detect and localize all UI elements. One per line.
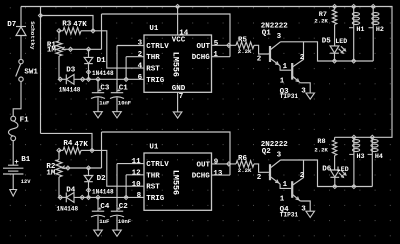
svg-text:H4: H4 [375, 153, 383, 161]
svg-text:LED: LED [335, 38, 347, 45]
svg-text:1uF: 1uF [99, 218, 110, 225]
capacitor C3 [91, 79, 105, 111]
wire OUT row 2 [212, 163, 237, 165]
wire CTRLV pin 3 [117, 46, 144, 93]
pin 14 wire VCC [177, 7, 179, 36]
svg-text:1: 1 [213, 51, 218, 59]
label R4 [63, 140, 73, 148]
resistor R5 [236, 42, 269, 54]
svg-text:12V: 12V [21, 179, 31, 185]
label D2 [97, 175, 107, 183]
svg-text:1: 1 [280, 196, 285, 204]
label H1 [356, 26, 364, 34]
node R3-riser junction [91, 29, 95, 33]
label 2.2K R6 [238, 167, 252, 174]
svg-text:R5: R5 [238, 37, 248, 45]
transistor Q4 [292, 160, 310, 211]
node D5-rail junction [332, 59, 336, 63]
svg-text:LM556: LM556 [170, 52, 180, 77]
inductor H4 [368, 137, 379, 186]
wire DCHG stub 2 [212, 174, 231, 176]
node D2 pin end [86, 188, 90, 192]
node H2-rail junction [371, 4, 375, 8]
svg-text:Schottky: Schottky [29, 21, 36, 50]
label 1N4148 D1 [92, 70, 114, 77]
svg-text:2: 2 [257, 174, 262, 182]
node C4 junction [96, 195, 100, 199]
label D7 [7, 21, 16, 29]
label R1 [47, 42, 57, 50]
svg-text:47K: 47K [73, 21, 87, 29]
svg-text:2: 2 [257, 56, 262, 64]
diode D3 [66, 74, 74, 84]
node H3-rail top junction [352, 135, 356, 139]
label TRIG [146, 77, 165, 85]
svg-text:Q2: Q2 [262, 148, 272, 156]
svg-text:C4: C4 [100, 203, 110, 211]
transistor Q1 [270, 42, 291, 70]
pin 14 [179, 29, 189, 37]
svg-text:TRIG: TRIG [146, 195, 165, 203]
label D4 [66, 186, 76, 194]
node D2-trig junction [86, 195, 90, 199]
label VCC [172, 36, 186, 44]
wire CTRLV pin 11 [117, 164, 144, 212]
svg-text:2.2K: 2.2K [238, 167, 252, 174]
label Q1 [262, 30, 272, 38]
svg-text:DCHG: DCHG [192, 54, 211, 62]
svg-text:OUT: OUT [197, 43, 211, 51]
label DCHG [192, 54, 211, 62]
wire trig row bottom [59, 196, 144, 198]
node D4 pin end [80, 195, 84, 199]
wire SW1 to F1 [13, 81, 21, 116]
wire R3 row to RST [93, 31, 144, 68]
diode D2 [84, 168, 93, 197]
svg-text:3: 3 [277, 33, 282, 41]
node wiper-D2 junction [86, 166, 90, 170]
transistor Q3 [292, 42, 310, 93]
label TIP31 Q3 [280, 93, 299, 100]
pin 7 wire GND [177, 92, 179, 112]
label C2 [117, 203, 128, 213]
svg-text:C3: C3 [100, 84, 110, 92]
pin 3 Q3 [301, 87, 306, 95]
svg-text:2: 2 [138, 51, 143, 59]
svg-text:D7: D7 [7, 21, 16, 29]
svg-text:VCC: VCC [172, 36, 186, 44]
capacitor C1 [110, 93, 124, 112]
pin 3 Q2 [277, 152, 282, 160]
node wiper pin end 2 [66, 166, 70, 170]
resistor R4 [59, 147, 92, 154]
svg-text:10nF: 10nF [118, 100, 131, 107]
transistor Q2 [270, 160, 291, 188]
label 1N4148 D2 [92, 188, 114, 195]
pin 4 [138, 63, 143, 71]
label LED D6 [337, 166, 349, 173]
svg-text:RST: RST [146, 184, 160, 192]
svg-text:R3: R3 [62, 20, 72, 28]
ground C2 [113, 230, 122, 236]
ground U1 [173, 112, 182, 118]
node R7-rail junction [333, 4, 337, 8]
wire R4 row to RST [92, 150, 144, 186]
label R3 [62, 20, 72, 28]
node H4-rail junction [370, 135, 374, 139]
pin 1 [213, 51, 218, 59]
label DCHG 2 [192, 173, 211, 181]
label THR [146, 54, 160, 62]
svg-text:R6: R6 [238, 155, 248, 163]
op-amp U1 box (timer 2) [144, 153, 212, 210]
pin 2 [138, 51, 143, 59]
node D1-trig junction [86, 77, 90, 81]
label THR 2 [146, 172, 160, 180]
pin 1 Q1 [283, 63, 288, 71]
node D1 pin end [86, 70, 90, 74]
svg-text:+: + [14, 159, 19, 167]
inductor H3 [349, 137, 360, 186]
label D1 [97, 57, 107, 65]
wire OUT row [212, 44, 237, 46]
label 47K [73, 21, 87, 29]
label Q3 [280, 88, 290, 96]
label 1N4148 D4 [57, 206, 79, 213]
led D5 [330, 46, 346, 61]
label TIP31 Q4 [280, 211, 299, 218]
node pot2-top junction [57, 148, 61, 152]
resistor R8 [332, 137, 336, 170]
svg-text:1N4148: 1N4148 [92, 70, 114, 77]
resistor R3 [59, 28, 93, 35]
svg-text:3: 3 [301, 206, 306, 214]
svg-text:1M: 1M [46, 169, 56, 177]
label U1 bottom [149, 144, 159, 152]
svg-text:TIP31: TIP31 [280, 211, 299, 218]
pin 12 [132, 169, 142, 177]
svg-text:Q1: Q1 [262, 30, 272, 38]
label R8 [317, 138, 325, 146]
pin 7 [179, 93, 184, 101]
svg-text:3: 3 [138, 40, 143, 48]
label CTRLV [146, 43, 169, 51]
svg-text:D5: D5 [322, 38, 332, 46]
pin 13 [213, 170, 223, 178]
label TRIG 2 [146, 195, 165, 203]
wire bus feed top [41, 16, 94, 31]
svg-text:2: 2 [300, 172, 305, 180]
svg-text:9: 9 [214, 158, 219, 166]
label U1 top [149, 25, 159, 33]
switch SW1 [16, 59, 23, 81]
svg-text:B1: B1 [21, 156, 31, 164]
svg-text:OUT: OUT [197, 162, 211, 170]
label 1uF [99, 100, 110, 107]
pin 3 Q1 [277, 33, 282, 41]
svg-text:H2: H2 [376, 26, 384, 34]
label D5 [322, 38, 332, 46]
led D6 [330, 170, 346, 187]
label 10nF C2 [118, 218, 131, 225]
diode D7 (Schottky) [16, 27, 26, 60]
svg-text:5: 5 [214, 40, 219, 48]
node out junction 2 [227, 162, 231, 166]
svg-text:D1: D1 [97, 57, 107, 65]
wire collector rail bottom [281, 160, 373, 187]
svg-text:3: 3 [301, 87, 306, 95]
label LM556 bottom [170, 170, 180, 195]
node bus feed junction [38, 13, 42, 17]
node wiper-D1 junction [86, 47, 90, 51]
pin 1 Q4 [280, 196, 285, 204]
node out junction [227, 43, 231, 47]
svg-text:2: 2 [300, 54, 305, 62]
wire THR-TRIG tie 2 [126, 175, 144, 198]
svg-text:RST: RST [146, 66, 160, 74]
svg-text:47K: 47K [74, 141, 88, 149]
svg-text:D4: D4 [66, 186, 76, 194]
node wiper pin end [68, 47, 72, 51]
wire feedback top [102, 14, 231, 57]
svg-text:F1: F1 [20, 117, 30, 125]
svg-text:D3: D3 [66, 67, 76, 75]
node H1-rail bottom junction [352, 59, 356, 63]
svg-text:7: 7 [179, 93, 184, 101]
node thr-trig junction 2 [124, 195, 128, 199]
capacitor C2 [110, 211, 124, 230]
label LM556 top [170, 52, 180, 77]
node H3-rail bottom junction [352, 184, 356, 188]
node R4-riser junction [90, 148, 94, 152]
svg-text:11: 11 [132, 158, 142, 166]
pin 1 Q3 [280, 77, 285, 85]
node H1-rail top junction [352, 4, 356, 8]
svg-text:2.2K: 2.2K [238, 48, 252, 55]
svg-text:R8: R8 [317, 138, 325, 146]
label 1N4148 D3 [59, 86, 81, 93]
wire +12V rail (top) [21, 7, 392, 138]
svg-text:THR: THR [146, 172, 160, 180]
svg-text:1: 1 [280, 77, 285, 85]
svg-text:6: 6 [138, 74, 143, 82]
label D3 [66, 67, 76, 75]
label C4 [98, 203, 110, 213]
svg-text:1: 1 [283, 63, 288, 71]
svg-text:13: 13 [213, 170, 223, 178]
svg-text:1N4148: 1N4148 [57, 206, 79, 213]
wire THR-TRIG tie [126, 57, 144, 80]
svg-text:LM556: LM556 [170, 170, 180, 195]
svg-text:CTRLV: CTRLV [146, 161, 169, 169]
fuse F1 [8, 116, 17, 141]
label SW1 [24, 69, 38, 77]
diode D1 [84, 49, 93, 79]
svg-text:LED: LED [337, 166, 349, 173]
svg-text:U1: U1 [149, 144, 159, 152]
label 2N2222 Q2 [261, 141, 289, 149]
label 12V [21, 179, 31, 185]
pin 5 [214, 40, 219, 48]
svg-text:14: 14 [179, 29, 189, 37]
svg-text:H3: H3 [357, 153, 365, 161]
svg-text:H1: H1 [356, 26, 364, 34]
wire bus feed bottom [41, 133, 93, 150]
pin 2 Q1 [257, 56, 262, 64]
label CTRLV 2 [146, 161, 169, 169]
label H3 [357, 153, 365, 161]
svg-text:D6: D6 [322, 166, 332, 174]
svg-text:12: 12 [132, 169, 142, 177]
ground C1 [113, 112, 122, 118]
pin 3 Q4 [301, 206, 306, 214]
svg-text:1: 1 [283, 181, 288, 189]
label 2.2K R5 [238, 48, 252, 55]
label Schottky [29, 21, 36, 50]
label 2N2222 Q1 [261, 22, 289, 30]
pin 2 Q3 [300, 54, 305, 62]
label 2.2K R7 [314, 18, 328, 25]
wire F1 to battery [12, 141, 14, 166]
label GND [172, 85, 186, 93]
svg-text:THR: THR [146, 54, 160, 62]
pin 10 [132, 181, 142, 189]
svg-text:R4: R4 [63, 140, 73, 148]
svg-text:D2: D2 [97, 175, 107, 183]
svg-text:1M: 1M [47, 46, 57, 54]
svg-text:2.2K: 2.2K [314, 18, 328, 25]
svg-text:TIP31: TIP31 [280, 93, 299, 100]
label R6 [238, 155, 248, 163]
label OUT 2 [197, 162, 211, 170]
label 1uF C4 [99, 218, 110, 225]
label 1M R2 [46, 169, 56, 177]
ground Q4 [306, 211, 315, 217]
ground Q3 [306, 93, 315, 99]
pin 9 [214, 158, 219, 166]
label 10nF [118, 100, 131, 107]
wire feedback bottom [102, 132, 231, 175]
svg-text:4: 4 [138, 63, 143, 71]
pin 6 [138, 74, 143, 82]
label C1 [117, 84, 128, 94]
ground C4 [94, 230, 103, 236]
node vcc-rail junction [176, 4, 180, 8]
pin 3 [138, 40, 143, 48]
label RST [146, 66, 160, 74]
wire DCHG stub [212, 56, 231, 58]
potentiometer R2 [56, 150, 102, 197]
capacitor C4 [91, 197, 105, 230]
wire trig row [59, 78, 144, 80]
label Q2 [262, 148, 272, 156]
node D4 cathode pin end [58, 195, 62, 199]
pin 11 [132, 158, 142, 166]
label LED D5 [335, 38, 347, 45]
svg-text:TRIG: TRIG [146, 77, 165, 85]
label 2.2K R8 [314, 146, 328, 153]
svg-text:2.2K: 2.2K [314, 146, 328, 153]
label R2 [46, 163, 56, 171]
node D3 cathode pin end [58, 77, 62, 81]
svg-text:1N4148: 1N4148 [92, 188, 114, 195]
label H4 [375, 153, 383, 161]
label R5 [238, 37, 248, 45]
node D3 pin end [81, 77, 85, 81]
svg-text:8: 8 [137, 192, 142, 200]
svg-text:U1: U1 [149, 25, 159, 33]
pin 1 Q2 [283, 181, 288, 189]
resistor R7 [332, 7, 336, 46]
label F1 [20, 117, 30, 125]
label C3 [98, 84, 110, 94]
svg-text:CTRLV: CTRLV [146, 43, 169, 51]
inductor H1 [349, 7, 360, 62]
wire left bus [40, 7, 42, 134]
label H2 [376, 26, 384, 34]
label R7 [319, 11, 327, 19]
svg-text:DCHG: DCHG [192, 173, 211, 181]
node D6-rail junction [333, 184, 337, 188]
potentiometer R1 [56, 31, 102, 80]
ground battery [10, 190, 17, 197]
svg-text:3: 3 [277, 152, 282, 160]
pin 2 Q2 [257, 174, 262, 182]
wire battery branch to rail [20, 7, 22, 27]
label 1M [47, 46, 57, 54]
svg-text:GND: GND [172, 85, 186, 93]
label 47K R4 [74, 141, 88, 149]
pin 2 Q4 [300, 172, 305, 180]
svg-text:SW1: SW1 [24, 69, 38, 77]
label B1 [14, 156, 30, 167]
label Q4 [280, 206, 290, 214]
label OUT [197, 43, 211, 51]
node thr-trig junction [124, 77, 128, 81]
diode D4 [66, 193, 74, 203]
label RST 2 [146, 184, 160, 192]
svg-text:1uF: 1uF [99, 100, 110, 107]
node pot-top junction [57, 29, 61, 33]
pin 8 [137, 192, 142, 200]
label D6 [322, 166, 332, 174]
svg-text:10nF: 10nF [118, 218, 131, 225]
battery B1 [3, 165, 23, 189]
op-amp U1 box (timer 1) [144, 35, 212, 92]
svg-text:10: 10 [132, 181, 142, 189]
node C3 junction [96, 77, 100, 81]
wire collector rail top [281, 42, 374, 61]
inductor H2 [369, 7, 380, 62]
ground C3 [94, 112, 103, 118]
resistor R6 [236, 161, 269, 173]
svg-text:1N4148: 1N4148 [59, 86, 81, 93]
